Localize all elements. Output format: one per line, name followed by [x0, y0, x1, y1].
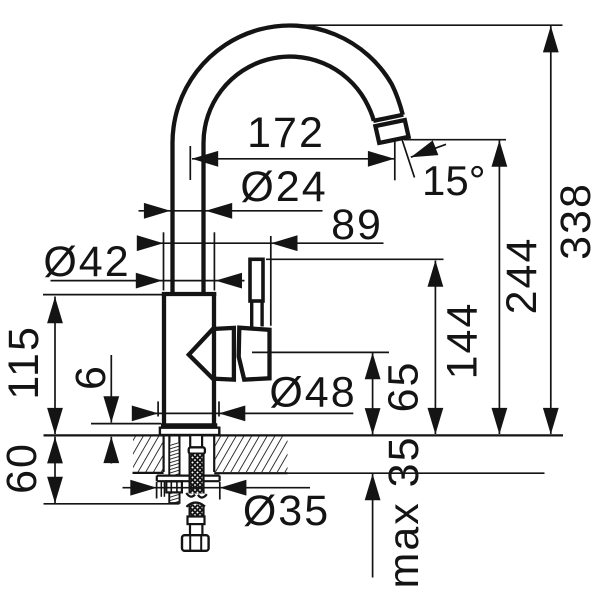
Ø24 dim: [139, 203, 323, 219]
counter bottom line + max35 reference extension: [214, 472, 287, 474]
svg-text:172: 172: [247, 109, 325, 157]
counter hatched left block: [133, 436, 164, 473]
6 dim: [91, 355, 161, 464]
washer under counter: [157, 476, 220, 497]
hose end tube: [190, 524, 202, 535]
counter hatched right block: [214, 436, 287, 472]
svg-text:60: 60: [0, 442, 46, 494]
144 dim: [266, 259, 444, 434]
mounting nut: [166, 481, 182, 492]
stream lines at spout tip: [394, 139, 396, 180]
244 dim: [404, 140, 507, 435]
svg-text:Ø24: Ø24: [240, 163, 327, 211]
handle grip: [239, 328, 270, 380]
max 35 dim: [365, 474, 381, 578]
svg-text:Ø35: Ø35: [243, 487, 330, 535]
svg-text:15°: 15°: [422, 157, 486, 204]
band cap at arc end: [373, 115, 403, 121]
faucet body cylinder: [161, 294, 217, 425]
svg-text:338: 338: [552, 182, 600, 260]
Ø48 dim: [132, 401, 353, 421]
aerator tip: [375, 120, 408, 143]
hose end collar: [188, 517, 205, 525]
Ø42 dim: [51, 273, 245, 289]
svg-text:Ø42: Ø42: [43, 238, 130, 286]
svg-text:65: 65: [380, 361, 428, 413]
338 dim: [301, 25, 563, 434]
base plate: [160, 428, 219, 435]
89 dim: [137, 232, 384, 325]
svg-text:144: 144: [439, 302, 487, 380]
svg-text:115: 115: [0, 325, 48, 400]
svg-text:244: 244: [498, 237, 546, 315]
hose ferrule: [189, 447, 205, 453]
flexible hose white top tube: [190, 436, 202, 447]
svg-text:89: 89: [331, 201, 383, 249]
Ø35 dim: [123, 480, 311, 500]
counter top surface line: [44, 434, 564, 436]
svg-text:6: 6: [67, 364, 115, 390]
hose braid lower (after break): [186, 503, 205, 517]
60 dim: [44, 437, 180, 504]
65 dim: [252, 352, 389, 434]
svg-text:Ø48: Ø48: [269, 369, 356, 417]
spout tube: inner edge: [204, 57, 374, 294]
115 dim: [43, 295, 162, 435]
spout tube: outer edge: [172, 25, 402, 294]
hose braid upper: [186, 454, 207, 498]
svg-text:max 35: max 35: [380, 435, 428, 588]
hose end hex nut: [182, 535, 209, 551]
threaded stud below counter: [169, 436, 179, 504]
15 deg leader arrow: [408, 140, 446, 164]
valve wedge: [189, 328, 234, 380]
172 dim: [190, 146, 394, 180]
lever rod: [250, 259, 263, 326]
